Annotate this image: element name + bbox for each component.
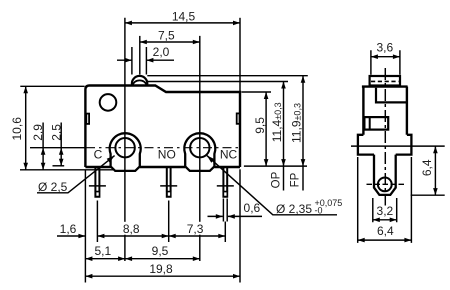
- ext line body bottom short: [53, 165, 65, 167]
- hole C inner circle: [115, 138, 134, 157]
- arrow 1,6 right-point: [78, 234, 85, 239]
- svg-text:9,5: 9,5: [253, 117, 267, 134]
- boss NC terminal: [184, 133, 215, 171]
- ext line pin NC left edge: [222, 199, 224, 222]
- end view slot divider: [369, 117, 371, 130]
- dim line 9,5 vertical: [265, 92, 267, 166]
- end view terminal: [374, 155, 396, 195]
- left edge notch: [86, 114, 89, 124]
- switch body outline: [85, 86, 240, 168]
- plunger dome inner: [133, 80, 146, 85]
- dim line 0,6 tails: [208, 215, 263, 217]
- centerline hole NC vertical: [199, 36, 201, 261]
- end view plunger button: [370, 76, 400, 86]
- arrows 11,9: [301, 76, 306, 83]
- svg-text:8,8: 8,8: [123, 222, 140, 236]
- pin NC tick: [217, 185, 234, 187]
- arrows 6,4 right: [433, 146, 438, 153]
- arrows 2,0: [125, 58, 132, 63]
- label 8,8 backing: [122, 222, 142, 235]
- arrows 9,5 row2: [125, 256, 132, 261]
- end view body sides: [363, 87, 407, 135]
- arrows 10,6: [23, 86, 28, 93]
- dim line row3 19,8: [85, 275, 240, 277]
- arrows 8,8: [97, 234, 104, 239]
- dim line 3,6: [371, 56, 400, 58]
- svg-text:FP: FP: [289, 172, 301, 187]
- ext line body right top: [239, 18, 241, 91]
- svg-text:5,1: 5,1: [94, 244, 111, 258]
- ext line pin C center: [96, 201, 98, 243]
- svg-text:11,9±0,3: 11,9±0,3: [290, 103, 304, 143]
- svg-text:NC: NC: [220, 147, 238, 161]
- body bottom edge segments: [85, 166, 240, 168]
- dim line 10,6: [25, 86, 27, 170]
- svg-text:C: C: [94, 147, 103, 161]
- end view horizontal centerline: [351, 145, 445, 147]
- OP reference line: [147, 81, 288, 83]
- end view lever slot box: [364, 117, 388, 130]
- ext lines 3,2: [373, 198, 397, 222]
- dim line 6,4 bottom: [358, 239, 412, 241]
- ext line body top right: [242, 91, 272, 93]
- svg-text:9,5: 9,5: [152, 244, 169, 258]
- svg-text:-0: -0: [315, 205, 323, 215]
- hole NC inner circle: [190, 138, 209, 157]
- end view hole centerline: [367, 183, 405, 185]
- pin NO tick: [160, 185, 177, 187]
- end view terminal hole: [378, 178, 392, 192]
- ext lines 3,6: [371, 50, 400, 75]
- svg-text:6,4: 6,4: [420, 159, 434, 176]
- svg-text:7,5: 7,5: [158, 28, 175, 42]
- ext line body bottom right: [244, 165, 307, 167]
- pin C tick: [89, 185, 106, 187]
- leader Ø2,5: [37, 156, 115, 193]
- ext line boss bottom left: [20, 169, 113, 171]
- ext line body left edge down: [84, 170, 86, 283]
- svg-text:Ø 2,35: Ø 2,35: [276, 202, 312, 216]
- arrows 11,4: [281, 82, 286, 89]
- arrows 2,5: [59, 148, 64, 155]
- pin C tip block: [94, 191, 100, 198]
- ext lines 6,4 bottom: [358, 157, 412, 243]
- ext line body right edge down: [239, 169, 241, 282]
- dim line 7,5: [140, 41, 200, 43]
- pin NC tip block: [222, 191, 228, 198]
- svg-text:11,4±0,3: 11,4±0,3: [270, 102, 284, 142]
- end view flange: [358, 135, 412, 155]
- dim line 2,0 tails: [117, 59, 174, 61]
- ext line body top left: [20, 85, 84, 87]
- ext line pin NO center: [168, 201, 170, 243]
- arrow leader Ø2,5: [107, 156, 115, 163]
- label 7,3 backing: [186, 222, 205, 235]
- svg-text:0,6: 0,6: [244, 201, 261, 215]
- svg-text:1,6: 1,6: [60, 222, 77, 236]
- dim line row1 8,8 7,3: [97, 235, 225, 237]
- svg-text:OP: OP: [270, 171, 282, 188]
- arrows 6,4 bottom: [358, 238, 365, 243]
- ext line pin NC right edge: [226, 199, 228, 222]
- arrows 9,5 vertical: [264, 92, 269, 99]
- dim line 3,2: [373, 219, 397, 221]
- pin NC: [223, 168, 227, 192]
- svg-text:3,6: 3,6: [376, 41, 393, 55]
- end view vertical centerline: [384, 68, 386, 206]
- dim line 11,9 FP: [302, 76, 304, 191]
- centerline terminals horizontal solid part: [30, 147, 85, 149]
- arrows 3,2: [373, 218, 380, 223]
- plunger dome outer: [132, 76, 147, 85]
- svg-text:3,2: 3,2: [377, 204, 394, 218]
- centerline hole C vertical: [124, 18, 126, 261]
- ext line 2,0 right: [145, 47, 147, 75]
- dim line 2,5: [60, 123, 62, 166]
- ext line 2,0 left: [131, 47, 133, 75]
- svg-text:NO: NO: [158, 148, 176, 162]
- pin C: [95, 168, 99, 192]
- arrow leader Ø2,35: [207, 155, 215, 162]
- svg-text:19,8: 19,8: [149, 262, 173, 276]
- leader Ø2,35: [207, 155, 337, 214]
- arrows 14,5: [125, 21, 132, 26]
- arrows 3,6: [371, 54, 378, 59]
- dim line 11,4 OP: [283, 82, 285, 191]
- arrows 2,9: [41, 148, 46, 155]
- svg-text:2,9: 2,9: [31, 124, 45, 141]
- ext line pin NC center: [224, 222, 226, 243]
- pivot hole circle: [100, 94, 117, 111]
- right edge notch: [237, 113, 240, 123]
- svg-text:Ø 2,5: Ø 2,5: [38, 180, 68, 194]
- svg-text:2,5: 2,5: [49, 124, 63, 141]
- boss C terminal: [110, 133, 141, 171]
- end view inner step: [376, 88, 407, 103]
- dim line 2,9: [42, 123, 44, 170]
- svg-text:6,4: 6,4: [377, 224, 394, 238]
- end view button hidden edge dashed: [371, 80, 399, 82]
- svg-text:14,5: 14,5: [172, 9, 196, 23]
- svg-text:2,0: 2,0: [153, 45, 170, 59]
- svg-text:7,3: 7,3: [187, 222, 204, 236]
- dim line row1 1,6 tail: [57, 235, 85, 237]
- end view body top edge: [362, 85, 408, 87]
- dim line 6,4 right: [434, 146, 436, 195]
- arrows 7,3: [169, 234, 176, 239]
- arrows 19,8: [85, 274, 92, 279]
- centerline terminals horizontal dashed part: [86, 147, 238, 149]
- dim line row2 5,1 9,5: [85, 258, 199, 260]
- dim line 14,5: [125, 22, 240, 24]
- FP reference line: [147, 75, 307, 77]
- arrows 7,5: [140, 40, 147, 45]
- svg-text:10,6: 10,6: [10, 117, 24, 141]
- pin NO tip block: [166, 191, 172, 198]
- arrows 5,1: [85, 256, 92, 261]
- centerline plunger: [139, 36, 141, 75]
- ext line 6,4 right bottom: [411, 194, 445, 196]
- arrows 0,6: [216, 214, 223, 219]
- pin NO: [167, 168, 171, 192]
